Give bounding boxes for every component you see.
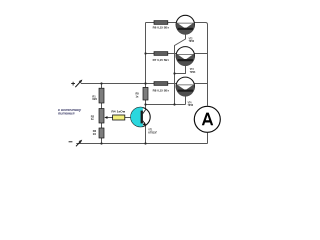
wire R1-R2 link bbox=[101, 103, 103, 109]
svg-text:R7 0,15 5Вт: R7 0,15 5Вт bbox=[153, 58, 170, 62]
resistor R6 0.15 5W bbox=[153, 21, 170, 30]
wire branch1 collector to right rail bbox=[194, 23, 207, 106]
wire mid rail stub above R5 bbox=[145, 84, 147, 88]
junction dot bottom rail / VT1 emitter bbox=[144, 142, 146, 144]
svg-text:R6 0,15 5Вт: R6 0,15 5Вт bbox=[153, 25, 170, 29]
transistor VT1 KT815G driver bbox=[131, 107, 158, 134]
junction dot base bus bottom bbox=[173, 103, 175, 105]
wiper arrow of R2 bbox=[104, 116, 107, 119]
junction dot plus rail / column bbox=[100, 82, 102, 84]
junction dot emitter rail / branch2 bbox=[144, 52, 146, 54]
transistor VT3 TIP36 bbox=[176, 47, 195, 74]
svg-text:TIP36: TIP36 bbox=[188, 103, 194, 107]
wire column top stub bbox=[101, 84, 103, 89]
VT1 emitter internal lead bbox=[143, 121, 146, 125]
svg-text:питания: питания bbox=[58, 112, 75, 116]
svg-text:R8 0,15 5Вт: R8 0,15 5Вт bbox=[153, 89, 170, 93]
wire branch3 collector bbox=[194, 83, 207, 85]
wire VT1 base lead bbox=[125, 117, 131, 119]
wire R2-R3 link bbox=[101, 123, 103, 128]
transistor VT4 TIP36 bbox=[176, 77, 194, 107]
terminal plus arrow bbox=[71, 80, 82, 88]
wire VT1 collector lead bbox=[143, 105, 146, 114]
VT1 emitter arrowhead bbox=[143, 122, 146, 125]
svg-text:КТ815Г: КТ815Г bbox=[148, 130, 157, 134]
resistor R8 0.15 5W bbox=[153, 82, 170, 93]
resistor R5 1k bbox=[136, 87, 149, 100]
wire R3 bottom stub bbox=[101, 138, 103, 144]
wire branch2 collector bbox=[194, 53, 207, 55]
resistor R3 10 bbox=[93, 128, 104, 138]
wire plus supply / branch3 horizontal bbox=[81, 83, 177, 85]
transistor VT2 TIP36 bbox=[176, 15, 194, 43]
junction dot bottom rail / column bbox=[100, 142, 102, 144]
potentiometer R2 1k bbox=[91, 109, 108, 124]
resistor R1 620 bbox=[92, 88, 104, 103]
ammeter PA1 bbox=[194, 106, 220, 132]
svg-text:TIP36: TIP36 bbox=[189, 39, 195, 43]
svg-text:10: 10 bbox=[93, 132, 97, 136]
svg-text:R4 1кОм: R4 1кОм bbox=[111, 109, 125, 113]
junction dot base bus VT3 bbox=[173, 72, 175, 74]
wire wiper to yellow resistor bbox=[106, 117, 113, 119]
wire driver collector node horizontal bbox=[146, 104, 186, 106]
wire base VT3 bbox=[175, 65, 186, 74]
wire branch1 horizontal bbox=[146, 22, 177, 24]
svg-text:620: 620 bbox=[92, 97, 97, 101]
wire branch2 horizontal bbox=[146, 53, 177, 55]
wire base bus VT2 bbox=[175, 34, 186, 105]
note to power supply bbox=[58, 108, 82, 116]
wire mid rail stub below R5 bbox=[145, 100, 147, 105]
VT1 collector internal lead bbox=[143, 109, 146, 113]
wire VT1 emitter lead bbox=[143, 121, 146, 144]
svg-text:TIP36: TIP36 bbox=[190, 70, 196, 74]
junction dot plus rail / emitter rail bbox=[144, 82, 146, 84]
resistor R7 0.15 5W bbox=[153, 52, 170, 62]
wire ammeter bottom stub bbox=[207, 133, 209, 144]
resistor R4 1kOhm yellow bbox=[111, 109, 125, 120]
wire base VT4 bbox=[185, 96, 187, 105]
wire left emitter rail bbox=[145, 23, 147, 84]
wire bottom minus rail bbox=[76, 143, 207, 145]
terminal minus arrow bbox=[69, 140, 83, 147]
junction dot driver collector node bbox=[144, 103, 146, 105]
